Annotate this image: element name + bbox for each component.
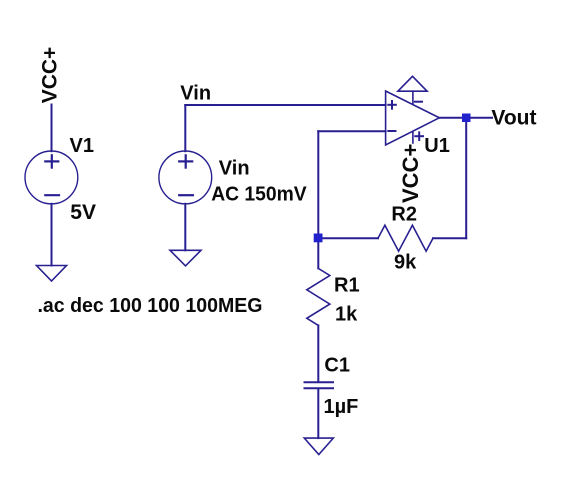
wire (feedback down from output node)	[465, 118, 467, 239]
wire	[184, 204, 186, 251]
V1 minus mark	[45, 194, 59, 196]
svg-text:V1: V1	[70, 135, 94, 157]
svg-text:C1: C1	[324, 355, 350, 377]
wire (node down to R1)	[317, 238, 319, 268]
wire (C1 to ground)	[317, 389, 319, 438]
wire (R1 to C1)	[317, 325, 319, 381]
wire (R2 right lead)	[433, 237, 466, 239]
svg-text:VCC+: VCC+	[398, 144, 423, 203]
wire	[318, 130, 385, 132]
wire (feedback from node up to inverting input)	[317, 131, 319, 238]
op-amp bottom power pin	[412, 131, 414, 143]
svg-text:Vout: Vout	[491, 106, 536, 129]
Vin minus mark	[179, 194, 193, 196]
svg-text:U1: U1	[424, 135, 450, 157]
voltage source Vin circle	[159, 151, 212, 204]
resistor R2 (horizontal zigzag)	[378, 225, 433, 251]
op-amp top power pin	[412, 91, 414, 103]
svg-text:Vin: Vin	[180, 83, 211, 105]
ground (below V1)	[37, 266, 67, 282]
V1 plus mark	[45, 155, 58, 167]
Vin plus mark	[179, 155, 192, 167]
wire	[51, 105, 53, 152]
svg-text:Vin: Vin	[219, 158, 250, 180]
capacitor C1 bottom plate	[305, 387, 334, 389]
ground flag (on op-amp V- pin, pointing up)	[398, 76, 427, 91]
svg-text:.ac dec 100 100 100MEG: .ac dec 100 100 100MEG	[38, 295, 263, 317]
svg-text:R1: R1	[334, 274, 360, 296]
capacitor C1 top plate	[305, 381, 334, 383]
op-amp inverting input minus mark	[388, 130, 395, 132]
op-amp U1 triangle	[386, 91, 440, 145]
wire (R2 left lead to node)	[318, 237, 378, 239]
resistor R1 (vertical zigzag)	[307, 268, 330, 325]
svg-text:VCC+: VCC+	[38, 47, 61, 104]
wire	[51, 204, 53, 266]
op-amp bottom power plus label	[415, 132, 423, 140]
ground (below C1)	[304, 438, 333, 454]
net flag VCC+ (left, label)	[0, 0, 1, 1]
svg-text:1k: 1k	[335, 304, 358, 326]
wire (op-amp output)	[439, 117, 492, 119]
svg-text:5V: 5V	[70, 201, 96, 224]
svg-text:1µF: 1µF	[324, 396, 359, 418]
ground (below Vin)	[170, 250, 201, 266]
op-amp top power minus label	[415, 101, 422, 103]
op-amp non-inverting input plus mark	[388, 101, 396, 109]
wire (Vin vertical)	[184, 105, 186, 151]
svg-text:R2: R2	[391, 203, 417, 225]
node junction (output node)	[462, 114, 471, 123]
wire (Vin horizontal to op-amp)	[185, 104, 385, 106]
svg-text:AC 150mV: AC 150mV	[211, 183, 307, 205]
svg-text:9k: 9k	[394, 251, 417, 273]
node junction (feedback node)	[314, 234, 323, 243]
voltage source V1 circle	[25, 151, 78, 204]
